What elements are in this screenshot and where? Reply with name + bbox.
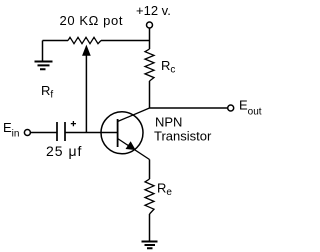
transistor Q1 emitter arrowhead (126, 142, 134, 149)
wire pot top rail (43, 40, 150, 42)
transistor Q1 circle (101, 112, 143, 154)
wire ground drop left (42, 41, 44, 62)
svg-text:Eout: Eout (239, 98, 262, 118)
wire collector column (149, 81, 151, 108)
terminal +12v node (147, 22, 153, 28)
svg-text:Rc: Rc (161, 58, 175, 76)
ground symbol bottom (142, 242, 158, 249)
svg-text:NPN: NPN (155, 115, 182, 130)
wire Re to ground (149, 214, 151, 242)
resistor Rc (145, 49, 154, 81)
svg-text:Ein: Ein (3, 120, 19, 139)
wire +12v drop (149, 28, 151, 49)
wire Ein to capacitor (31, 132, 57, 134)
svg-text:20 KΩ pot: 20 KΩ pot (60, 13, 124, 28)
transistor Q1 collector lead (118, 108, 150, 122)
svg-text:+12 v.: +12 v. (136, 3, 171, 18)
svg-text:Transistor: Transistor (154, 129, 212, 144)
potentiometer wiper arrow (85, 55, 87, 133)
wire Eout lead (150, 107, 228, 109)
svg-text:Rf: Rf (41, 83, 53, 101)
svg-text:Re: Re (157, 181, 172, 199)
resistor Re (145, 179, 154, 214)
ground symbol left (35, 62, 53, 70)
svg-text:25 μf: 25 μf (46, 143, 82, 159)
transistor Q1 emitter lead (118, 139, 150, 160)
potentiometer 20K element (68, 37, 101, 43)
capacitor polarity plus (71, 121, 76, 126)
transistor Q1 base bar (117, 119, 119, 147)
terminal Eout node (228, 105, 234, 111)
wire emitter column (149, 160, 151, 180)
wire capacitor to base (65, 132, 118, 134)
capacitor C1 plates (57, 122, 65, 141)
terminal Ein node (24, 130, 30, 136)
